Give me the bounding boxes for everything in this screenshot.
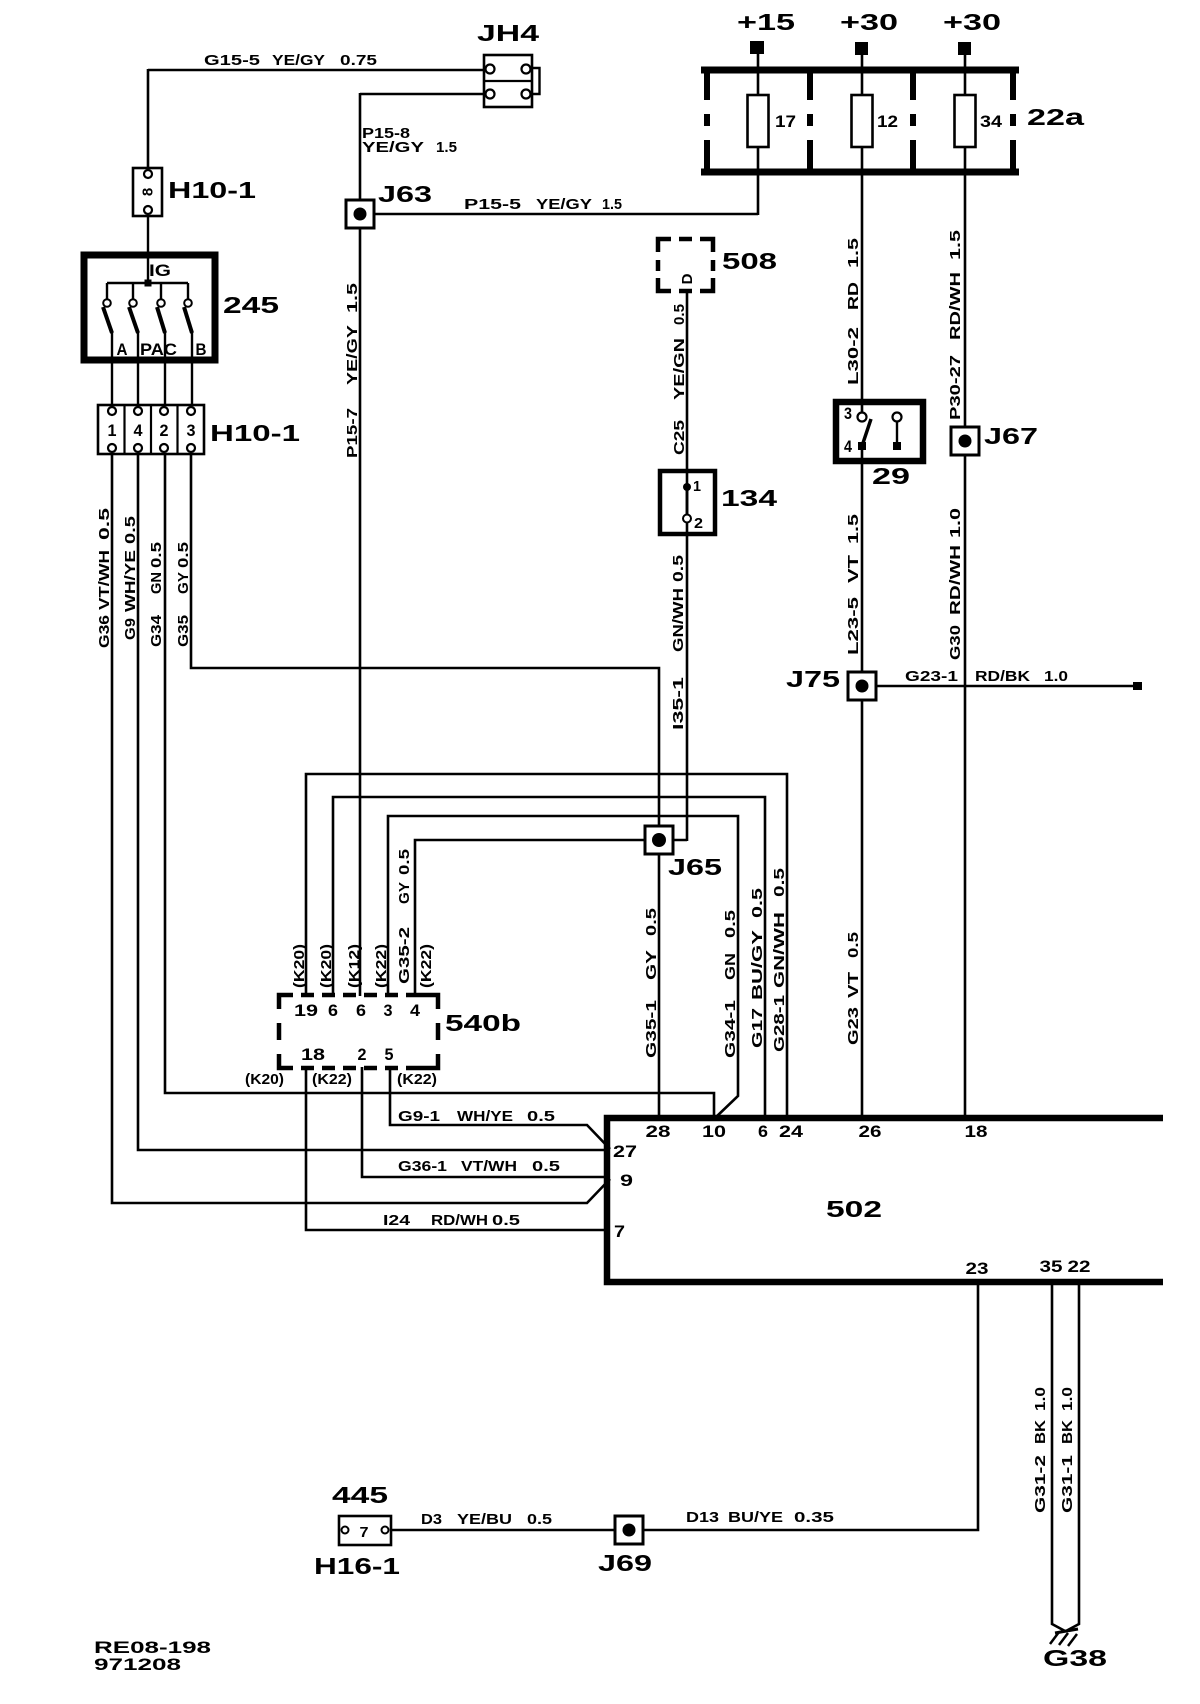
svg-text:J75: J75 bbox=[786, 666, 840, 692]
svg-text:P15-5: P15-5 bbox=[464, 196, 521, 213]
fuse 34 pin label bbox=[980, 113, 1003, 131]
svg-text:BK: BK bbox=[1059, 1420, 1076, 1444]
svg-text:(K22): (K22) bbox=[418, 944, 435, 988]
wire JH4 to J63 vertical (P15-8 YE/GY 1.5) bbox=[360, 93, 486, 996]
label J69 bbox=[598, 1550, 652, 1576]
svg-text:1.5: 1.5 bbox=[602, 196, 622, 213]
pin label 2 bbox=[694, 515, 703, 532]
wire label L30-2 RD 1.5 (rotated) bbox=[845, 238, 862, 385]
wire 540b pin 19 to 502 pin 24 (G28-1 GN/WH 0.5) bbox=[306, 774, 787, 1119]
svg-text:RD: RD bbox=[845, 282, 862, 310]
svg-text:0.5: 0.5 bbox=[492, 1212, 520, 1229]
switch unit 245 outline bbox=[84, 255, 215, 360]
wire label I35-1 GN/WH 0.5 (rotated) bbox=[670, 555, 687, 730]
svg-text:+30: +30 bbox=[943, 9, 1001, 35]
wire label D3 YE/BU 0.5 bbox=[421, 1511, 552, 1528]
svg-text:GN/WH: GN/WH bbox=[771, 912, 788, 988]
svg-text:GN/WH: GN/WH bbox=[670, 588, 687, 652]
label PAC bbox=[140, 341, 177, 359]
svg-text:D3: D3 bbox=[421, 1511, 442, 1528]
unit 134 outline bbox=[660, 471, 715, 534]
harness label (K12) top (rotated) bbox=[346, 944, 363, 988]
svg-text:YE/GY: YE/GY bbox=[272, 52, 325, 69]
502 pin label 7 bbox=[614, 1223, 625, 1241]
svg-text:H10-1: H10-1 bbox=[210, 420, 300, 446]
connector H10-1 pin 8 bbox=[133, 168, 162, 216]
pin label 4 bbox=[134, 422, 144, 440]
wire label C25 YE/GN 0.5 (rotated) bbox=[671, 304, 688, 455]
label 540b bbox=[445, 1010, 521, 1036]
svg-text:G23: G23 bbox=[845, 1007, 862, 1045]
switch contact B bbox=[184, 299, 192, 333]
label 29 bbox=[872, 463, 910, 489]
502 pin label 27 bbox=[613, 1143, 637, 1161]
svg-text:6: 6 bbox=[328, 1002, 338, 1020]
svg-text:0.5: 0.5 bbox=[771, 868, 788, 897]
540b bottom pin label 18 bbox=[301, 1046, 325, 1064]
svg-text:G15-5: G15-5 bbox=[204, 52, 260, 69]
wire G34 GN 0.5 (H10-1 pin 2 to 502 pin 10) bbox=[165, 454, 714, 1119]
svg-text:1.0: 1.0 bbox=[1032, 1387, 1049, 1411]
svg-text:1.0: 1.0 bbox=[1059, 1387, 1076, 1411]
wire label G35-2 GY 0.5 (rotated) bbox=[396, 849, 413, 984]
svg-text:0.5: 0.5 bbox=[96, 508, 113, 540]
relay second contact bbox=[893, 413, 902, 451]
relay pin 3 contact bbox=[858, 413, 867, 422]
fuse 17 bbox=[748, 95, 769, 147]
switch contact PAC-2 bbox=[157, 299, 165, 333]
svg-text:+30: +30 bbox=[840, 9, 898, 35]
svg-text:(K20): (K20) bbox=[245, 1071, 284, 1088]
svg-text:7: 7 bbox=[614, 1223, 625, 1241]
svg-text:GY: GY bbox=[643, 950, 660, 980]
svg-text:0.5: 0.5 bbox=[643, 908, 660, 936]
power symbol +30 (fuse 12) bbox=[840, 9, 898, 55]
pin label 3 bbox=[187, 422, 196, 440]
svg-text:12: 12 bbox=[877, 113, 898, 131]
svg-text:RD/WH: RD/WH bbox=[947, 545, 964, 615]
svg-text:YE/GN: YE/GN bbox=[671, 338, 688, 400]
svg-text:C25: C25 bbox=[671, 420, 688, 455]
svg-text:26: 26 bbox=[859, 1123, 882, 1141]
svg-text:G38: G38 bbox=[1043, 1645, 1107, 1671]
power symbol +30 (fuse 34) bbox=[943, 9, 1001, 55]
502 pin label 22 bbox=[1068, 1258, 1091, 1276]
502 pin label 6 bbox=[758, 1123, 768, 1141]
wire label G17 BU/GY 0.5 (rotated) bbox=[749, 888, 766, 1048]
svg-text:G9: G9 bbox=[122, 618, 139, 640]
svg-text:VT: VT bbox=[845, 555, 862, 583]
ground G38 symbol bbox=[1050, 1629, 1078, 1646]
svg-text:971208: 971208 bbox=[94, 1656, 181, 1674]
svg-text:RD/WH: RD/WH bbox=[947, 272, 964, 340]
svg-text:508: 508 bbox=[722, 248, 777, 274]
wire label G9 WH/YE 0.5 (rotated) bbox=[122, 516, 139, 640]
svg-text:H16-1: H16-1 bbox=[314, 1553, 400, 1579]
wire +30 feed to fuse 34 bbox=[964, 54, 967, 96]
svg-text:4: 4 bbox=[844, 438, 853, 456]
wire C25 YE/GN 0.5 / I35-1 GN/WH 0.5 (508 pin D through 134 to J65) bbox=[661, 291, 687, 841]
harness label (K22) bottom 1 bbox=[312, 1071, 352, 1088]
540b top pin label 3 bbox=[384, 1002, 393, 1020]
svg-text:G36-1: G36-1 bbox=[398, 1158, 447, 1175]
relay pin label 3 bbox=[844, 405, 852, 423]
svg-text:502: 502 bbox=[826, 1196, 882, 1222]
wire label P30-27 RD/WH 1.5 (rotated) bbox=[947, 230, 964, 420]
svg-text:4: 4 bbox=[410, 1002, 421, 1020]
svg-text:VT: VT bbox=[845, 972, 862, 998]
unit 134 element bar bbox=[686, 487, 689, 518]
svg-text:G35-2: G35-2 bbox=[396, 927, 413, 984]
540b top pin label 6 (K12) bbox=[356, 1002, 366, 1020]
relay pin 4 terminal bbox=[858, 442, 866, 450]
pin label D (rotated) bbox=[679, 273, 696, 284]
svg-text:0.5: 0.5 bbox=[722, 910, 739, 938]
svg-text:3: 3 bbox=[844, 405, 852, 423]
svg-text:RD/WH: RD/WH bbox=[431, 1212, 488, 1229]
relay 29 outline bbox=[836, 402, 923, 461]
wire label D13 BU/YE 0.35 bbox=[686, 1509, 834, 1526]
power symbol +15 bbox=[737, 9, 795, 54]
svg-text:18: 18 bbox=[301, 1046, 325, 1064]
wire G31-2 BK 1.0 (502 pin 35 to ground G38) bbox=[1052, 1282, 1065, 1631]
svg-text:L30-2: L30-2 bbox=[845, 327, 862, 385]
svg-text:0.75: 0.75 bbox=[340, 52, 377, 69]
label 502 bbox=[826, 1196, 882, 1222]
svg-text:3: 3 bbox=[384, 1002, 393, 1020]
fuse 12 bbox=[852, 95, 873, 147]
svg-text:BK: BK bbox=[1032, 1420, 1049, 1444]
svg-text:0.5: 0.5 bbox=[845, 932, 862, 958]
wire label G35 GY 0.5 (rotated) bbox=[175, 542, 192, 647]
pin label 8 (rotated) bbox=[140, 188, 157, 196]
svg-text:34: 34 bbox=[980, 113, 1003, 131]
wire G9-1 WH/YE 0.5 (540b pin 5 to 502 pin 27) bbox=[390, 1067, 610, 1149]
label IG bbox=[149, 262, 171, 280]
wire P30-27 RD/WH 1.5 / G30 RD/WH 1.0 (fuse 34 through J67 to 502 pin 18) bbox=[964, 146, 967, 1119]
svg-text:H10-1: H10-1 bbox=[168, 177, 256, 203]
502 pin label 23 bbox=[966, 1260, 989, 1278]
svg-text:RD/BK: RD/BK bbox=[975, 668, 1030, 685]
svg-text:4: 4 bbox=[134, 422, 144, 440]
label 508 bbox=[722, 248, 777, 274]
svg-text:29: 29 bbox=[872, 463, 910, 489]
svg-text:0.5: 0.5 bbox=[671, 304, 688, 325]
wire label P15-8 YE/GY 1.5 bbox=[362, 125, 457, 156]
svg-text:0.5: 0.5 bbox=[122, 516, 139, 544]
svg-text:22a: 22a bbox=[1027, 104, 1084, 130]
svg-text:10: 10 bbox=[702, 1123, 726, 1141]
svg-text:7: 7 bbox=[360, 1524, 369, 1541]
svg-text:0.5: 0.5 bbox=[175, 542, 192, 568]
svg-text:1: 1 bbox=[108, 422, 117, 440]
502 pin label 18 bbox=[965, 1123, 988, 1141]
502 pin label 9 bbox=[620, 1172, 633, 1190]
svg-text:G23-1: G23-1 bbox=[905, 668, 958, 685]
svg-text:VT/WH: VT/WH bbox=[96, 550, 113, 610]
svg-text:G9-1: G9-1 bbox=[398, 1108, 440, 1125]
540b top pin label 19 bbox=[294, 1002, 318, 1020]
wire G35 GY 0.5 (H10-1 pin 3 to J65 to 502 pin 28) bbox=[191, 454, 659, 1119]
pin label 7 bbox=[360, 1524, 369, 1541]
pin label 1 bbox=[693, 478, 701, 495]
wire G36 VT/WH 0.5 (H10-1 pin 1 to 502 pin 9) bbox=[112, 454, 610, 1203]
wire label G30 RD/WH 1.0 (rotated) bbox=[947, 508, 964, 660]
svg-text:17: 17 bbox=[775, 113, 796, 131]
svg-text:B: B bbox=[196, 341, 207, 359]
wire label G31-1 BK 1.0 (rotated) bbox=[1059, 1387, 1076, 1513]
svg-text:D13: D13 bbox=[686, 1509, 719, 1526]
connector H10-1 four-pin bbox=[98, 405, 204, 454]
harness label (K22) top right (rotated) bbox=[418, 944, 435, 988]
svg-text:I24: I24 bbox=[383, 1212, 411, 1229]
unit 134 pin 1 terminal bbox=[683, 483, 691, 491]
502 pin label 35 bbox=[1040, 1258, 1063, 1276]
wire G31-1 BK 1.0 (502 pin 22 to ground G38) bbox=[1066, 1282, 1079, 1631]
540b bottom pin label 2 bbox=[358, 1046, 367, 1064]
svg-text:1: 1 bbox=[693, 478, 701, 495]
540b bottom pin label 5 bbox=[385, 1046, 394, 1064]
label B bbox=[196, 341, 207, 359]
svg-text:G34-1: G34-1 bbox=[722, 1000, 739, 1058]
wire label G15-5 YE/GY 0.75 bbox=[204, 52, 377, 69]
svg-text:6: 6 bbox=[356, 1002, 366, 1020]
svg-text:P15-7: P15-7 bbox=[344, 408, 361, 458]
label H16-1 bbox=[314, 1553, 400, 1579]
wire label G9-1 WH/YE 0.5 bbox=[398, 1108, 555, 1125]
fuse box 22a outline bbox=[701, 70, 1019, 172]
fuse 17 pin label bbox=[775, 113, 796, 131]
502 pin label 28 bbox=[646, 1123, 671, 1141]
540b top pin label 4 bbox=[410, 1002, 421, 1020]
wire G36-1 VT/WH 0.5 (540b pin 2 to 502 pin 9) bbox=[362, 1067, 610, 1177]
svg-text:YE/GY: YE/GY bbox=[536, 196, 592, 213]
wire G23-1 RD/BK 1.0 (J75 branch right) bbox=[876, 682, 1142, 690]
switch contact A bbox=[103, 299, 112, 333]
label J67 bbox=[984, 423, 1038, 449]
harness label (K20) bottom bbox=[245, 1071, 284, 1088]
svg-text:(K20): (K20) bbox=[291, 944, 308, 988]
svg-text:0.5: 0.5 bbox=[670, 555, 687, 582]
svg-text:L23-5: L23-5 bbox=[845, 597, 862, 655]
sheet reference RE08-198 971208 bbox=[94, 1639, 211, 1674]
wire G15-5 YE/GY 0.75 (H10-1 pin 8 to JH4) bbox=[148, 69, 486, 170]
wire label G35-1 GY 0.5 (rotated) bbox=[643, 908, 660, 1058]
svg-text:22: 22 bbox=[1068, 1258, 1091, 1276]
svg-text:0.35: 0.35 bbox=[794, 1509, 834, 1526]
svg-text:27: 27 bbox=[613, 1143, 637, 1161]
connector JH4 bbox=[484, 55, 540, 107]
svg-text:35: 35 bbox=[1040, 1258, 1063, 1276]
svg-text:1.5: 1.5 bbox=[947, 230, 964, 260]
svg-text:(K22): (K22) bbox=[312, 1071, 352, 1088]
splice J65 bbox=[645, 826, 673, 854]
harness label (K22) top (rotated) bbox=[373, 944, 390, 988]
svg-text:+15: +15 bbox=[737, 9, 795, 35]
label 134 bbox=[721, 485, 777, 511]
svg-text:J65: J65 bbox=[668, 854, 722, 880]
540b top pin label 6 (K20) bbox=[328, 1002, 338, 1020]
svg-text:1.5: 1.5 bbox=[845, 514, 862, 544]
wire label G23 VT 0.5 (rotated) bbox=[845, 932, 862, 1045]
svg-text:(K12): (K12) bbox=[346, 944, 363, 988]
svg-text:JH4: JH4 bbox=[477, 20, 539, 46]
svg-text:YE/GY: YE/GY bbox=[344, 325, 361, 385]
wire G9 WH/YE 0.5 (H10-1 pin 4 to 502 pin 27) bbox=[138, 454, 610, 1150]
wire I24 RD/WH 0.5 (540b pin 18 to 502 pin 7) bbox=[306, 1067, 610, 1230]
label 445 bbox=[332, 1482, 388, 1508]
svg-text:G17: G17 bbox=[749, 1008, 766, 1048]
svg-text:G34: G34 bbox=[148, 614, 165, 647]
svg-text:19: 19 bbox=[294, 1002, 318, 1020]
svg-text:G35: G35 bbox=[175, 615, 192, 647]
svg-text:6: 6 bbox=[758, 1123, 768, 1141]
wire label G23-1 RD/BK 1.0 bbox=[905, 668, 1068, 685]
label 245 bbox=[223, 292, 279, 318]
svg-text:J67: J67 bbox=[984, 423, 1038, 449]
svg-text:WH/YE: WH/YE bbox=[457, 1108, 513, 1125]
unit 508 (dashed outline) bbox=[658, 239, 713, 291]
svg-text:YE/BU: YE/BU bbox=[457, 1511, 512, 1528]
label H10-1 (bottom) bbox=[210, 420, 300, 446]
unit 134 pin 2 contact bbox=[683, 515, 691, 523]
svg-text:2: 2 bbox=[694, 515, 703, 532]
svg-text:1.0: 1.0 bbox=[947, 508, 964, 538]
splice J75 bbox=[848, 672, 876, 700]
label J65 bbox=[668, 854, 722, 880]
wire +15 feed to fuse 17 bbox=[757, 54, 760, 96]
502 pin label 24 bbox=[779, 1123, 804, 1141]
wire label P15-7 YE/GY 1.5 (rotated) bbox=[344, 283, 361, 458]
502 pin label 10 bbox=[702, 1123, 726, 1141]
svg-text:(K20): (K20) bbox=[318, 944, 335, 988]
wire G35-2 GY 0.5 (540b pin 4 to J65) bbox=[415, 840, 661, 996]
wire label G34 GN 0.5 (rotated) bbox=[148, 542, 165, 647]
svg-text:GY: GY bbox=[396, 882, 413, 904]
svg-text:IG: IG bbox=[149, 262, 171, 280]
svg-text:445: 445 bbox=[332, 1482, 388, 1508]
connector 540b (dashed outline) bbox=[279, 995, 438, 1068]
502 pin label 26 bbox=[859, 1123, 882, 1141]
wire 540b pin 3 to 502 pin 10 (G34-1 GN 0.5) bbox=[388, 816, 738, 1118]
wire label G36-1 VT/WH 0.5 bbox=[398, 1158, 560, 1175]
svg-text:RE08-198: RE08-198 bbox=[94, 1639, 211, 1657]
svg-text:23: 23 bbox=[966, 1260, 989, 1278]
svg-text:0.5: 0.5 bbox=[527, 1511, 552, 1528]
svg-text:D: D bbox=[679, 273, 696, 284]
svg-text:G31-2: G31-2 bbox=[1032, 1455, 1049, 1513]
svg-text:J63: J63 bbox=[378, 181, 432, 207]
svg-text:VT/WH: VT/WH bbox=[461, 1158, 517, 1175]
svg-text:GY: GY bbox=[175, 572, 192, 594]
label G38 bbox=[1043, 1645, 1107, 1671]
svg-text:3: 3 bbox=[187, 422, 196, 440]
svg-text:1.5: 1.5 bbox=[436, 139, 457, 156]
svg-text:G31-1: G31-1 bbox=[1059, 1455, 1076, 1513]
splice J63 bbox=[346, 200, 374, 228]
svg-text:540b: 540b bbox=[445, 1010, 521, 1036]
wire D13 BU/YE 0.35 / D3 YE/BU 0.5 (502 pin 23 through J69 to 445 H16-1 pin 7) bbox=[389, 1282, 978, 1530]
control unit 502 outline bbox=[607, 1118, 1163, 1282]
wire +30 feed to fuse 12 bbox=[861, 54, 864, 96]
svg-text:P30-27: P30-27 bbox=[947, 355, 964, 420]
svg-text:WH/YE: WH/YE bbox=[122, 550, 139, 612]
svg-text:0.5: 0.5 bbox=[148, 542, 165, 568]
svg-text:(K22): (K22) bbox=[397, 1071, 437, 1088]
pin label 1 bbox=[108, 422, 117, 440]
switch exit wires bbox=[112, 332, 192, 412]
wire P15-5 YE/GY 1.5 (J63 to fuse 17) bbox=[359, 146, 758, 215]
svg-text:245: 245 bbox=[223, 292, 279, 318]
label J63 bbox=[378, 181, 432, 207]
relay switch blade bbox=[862, 419, 871, 446]
wire label G31-2 BK 1.0 (rotated) bbox=[1032, 1387, 1049, 1513]
svg-text:J69: J69 bbox=[598, 1550, 652, 1576]
relay pin label 4 bbox=[844, 438, 853, 456]
svg-text:0.5: 0.5 bbox=[749, 888, 766, 918]
label H10-1 (top) bbox=[168, 177, 256, 203]
svg-text:0.5: 0.5 bbox=[527, 1108, 555, 1125]
harness label (K20) top 2 (rotated) bbox=[318, 944, 335, 988]
svg-text:24: 24 bbox=[779, 1123, 804, 1141]
label J75 bbox=[786, 666, 840, 692]
internal feed wire and junction bbox=[107, 215, 188, 300]
svg-text:YE/GY: YE/GY bbox=[362, 139, 424, 156]
svg-text:GN: GN bbox=[722, 953, 739, 980]
connector H16-1 pin 7 bbox=[339, 1516, 391, 1545]
wire L23-5 VT 1.5 / G23 VT 0.5 (relay 29 pin 4 through J75 to 502 pin 26) bbox=[861, 444, 864, 1119]
svg-text:5: 5 bbox=[385, 1046, 394, 1064]
svg-text:2: 2 bbox=[358, 1046, 367, 1064]
label 22a bbox=[1027, 104, 1084, 130]
svg-text:A: A bbox=[117, 341, 128, 359]
pin label 2 bbox=[160, 422, 169, 440]
svg-text:8: 8 bbox=[140, 188, 157, 196]
svg-text:BU/YE: BU/YE bbox=[728, 1509, 783, 1526]
wire label G28-1 GN/WH 0.5 (rotated) bbox=[771, 868, 788, 1052]
svg-text:134: 134 bbox=[721, 485, 777, 511]
svg-text:GN: GN bbox=[148, 572, 165, 594]
fuse 12 pin label bbox=[877, 113, 898, 131]
svg-text:BU/GY: BU/GY bbox=[749, 930, 766, 1000]
svg-text:0.5: 0.5 bbox=[532, 1158, 560, 1175]
svg-text:2: 2 bbox=[160, 422, 169, 440]
svg-text:G30: G30 bbox=[947, 625, 964, 660]
harness label (K20) top (rotated) bbox=[291, 944, 308, 988]
svg-text:0.5: 0.5 bbox=[396, 849, 413, 875]
fuse 34 bbox=[955, 95, 976, 147]
splice J67 bbox=[951, 427, 979, 455]
svg-text:1.5: 1.5 bbox=[344, 283, 361, 313]
svg-text:18: 18 bbox=[965, 1123, 988, 1141]
svg-text:(K22): (K22) bbox=[373, 944, 390, 988]
svg-text:G28-1: G28-1 bbox=[771, 995, 788, 1052]
svg-text:G36: G36 bbox=[96, 615, 113, 648]
svg-text:1.0: 1.0 bbox=[1044, 668, 1068, 685]
label JH4 bbox=[477, 20, 539, 46]
splice J69 bbox=[615, 1516, 643, 1544]
svg-text:G35-1: G35-1 bbox=[643, 1000, 660, 1058]
wire 540b pin 6 (K20) to 502 pin 6 (G17 BU/GY 0.5) bbox=[333, 797, 765, 1119]
wire label I24 RD/WH 0.5 bbox=[383, 1212, 520, 1229]
harness label (K22) bottom 2 bbox=[397, 1071, 437, 1088]
svg-text:1.5: 1.5 bbox=[845, 238, 862, 268]
label A bbox=[117, 341, 128, 359]
wire label G36 VT/WH 0.5 (rotated) bbox=[96, 508, 113, 648]
wire L30-2 RD 1.5 (fuse 12 to relay 29 pin 3) bbox=[861, 146, 864, 418]
svg-text:I35-1: I35-1 bbox=[670, 677, 687, 730]
wire label L23-5 VT 1.5 (rotated) bbox=[845, 514, 862, 655]
